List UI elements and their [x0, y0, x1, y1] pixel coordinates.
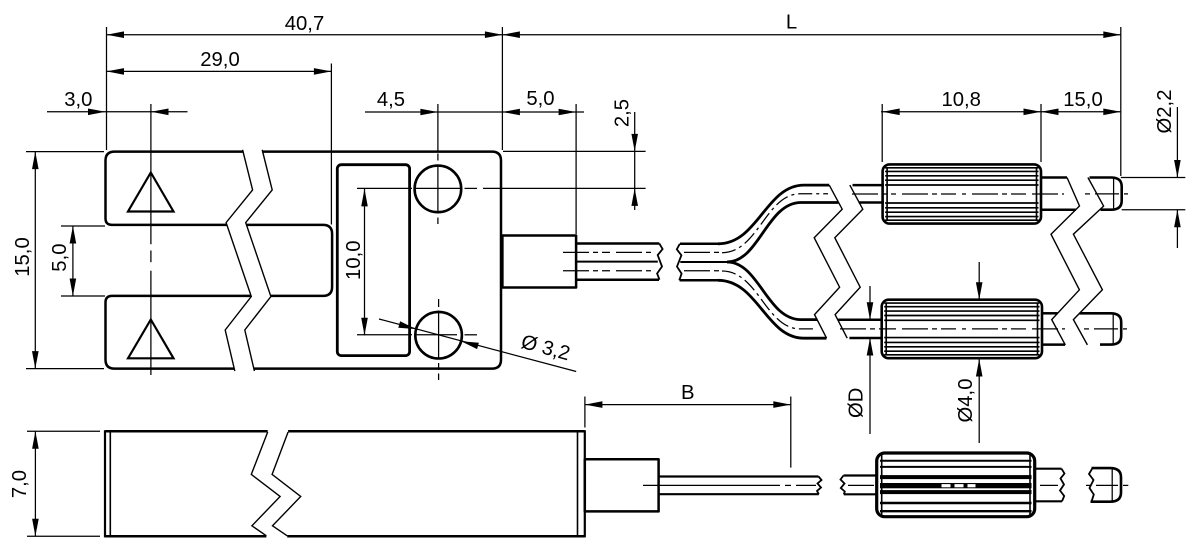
fiber end cap upper centerline [1085, 193, 1128, 195]
fiber centerline curves [722, 194, 828, 329]
twin cable core centerlines at split [684, 252, 720, 270]
fiber end cap upper [1090, 178, 1122, 210]
extension line ferrule left [881, 104, 883, 162]
extension line body top edge right [503, 150, 646, 152]
cable boot (top view) [502, 236, 576, 288]
fiber break band left line [814, 185, 842, 338]
dimension L [502, 11, 1120, 38]
leader line hole diameter [379, 319, 576, 372]
dimension 2,5 [611, 99, 638, 210]
svg-text:5,0: 5,0 [526, 88, 554, 110]
svg-text:Ø4,0: Ø4,0 [955, 379, 977, 423]
side view cable boot [585, 459, 659, 511]
dimension 15,0 left [12, 152, 104, 369]
side view cable centerline [643, 484, 816, 486]
fork sensor body (top view) left part [106, 152, 252, 369]
svg-text:10,0: 10,0 [343, 240, 365, 279]
fiber end cap lower centerline [1084, 328, 1127, 330]
svg-text:29,0: 29,0 [200, 49, 239, 71]
extension line boot right [575, 104, 577, 234]
hole centerline horizontal upper [357, 187, 646, 189]
knurled ferrule upper [883, 164, 1041, 223]
triangle centerline [150, 104, 152, 375]
svg-text:7,0: 7,0 [9, 470, 31, 498]
side view end cap [1086, 468, 1128, 502]
svg-text:5,0: 5,0 [49, 243, 71, 271]
svg-text:40,7: 40,7 [285, 13, 324, 35]
fiber Y-split [718, 185, 838, 338]
svg-text:4,5: 4,5 [377, 89, 405, 111]
extension line ferrule right [1040, 104, 1042, 162]
twin cable segment at split [677, 244, 727, 280]
beam mark triangle upper [128, 173, 174, 212]
dimension diameter 4,0 [955, 262, 983, 443]
beam mark triangle lower [128, 320, 174, 359]
dimension diameter D [846, 286, 874, 434]
dimension 7,0 [9, 431, 100, 536]
optical window [337, 165, 409, 356]
svg-text:2,5: 2,5 [611, 99, 633, 127]
extension line body right top [501, 27, 503, 150]
dimension diameter 2,2 [1121, 90, 1186, 248]
hole centerline horizontal lower [357, 334, 477, 336]
mounting hole upper [415, 166, 462, 213]
dimension 15,0 right [1041, 89, 1121, 115]
svg-text:10,8: 10,8 [941, 89, 980, 111]
fiber end cap lower [1080, 313, 1122, 344]
fiber break band right line [835, 185, 863, 338]
dimension 40,7 [107, 13, 503, 38]
side view cable [659, 477, 822, 495]
svg-text:15,0: 15,0 [1063, 89, 1102, 111]
svg-text:15,0: 15,0 [12, 237, 34, 276]
hole centerline vertical upper [437, 104, 439, 224]
extension line body left top [106, 27, 108, 150]
hole centerline vertical lower [438, 299, 440, 380]
dimension B [585, 382, 791, 468]
extension line cap right [1120, 27, 1122, 176]
end break band right line [1073, 178, 1103, 345]
dimension 29,0 [107, 49, 332, 225]
svg-text:ØD: ØD [846, 388, 868, 418]
body break line right [245, 150, 272, 371]
dimension 5,0 top [502, 88, 584, 115]
dimension 10,0 [343, 189, 368, 335]
dimension 4,5 [365, 89, 502, 115]
svg-text:B: B [681, 382, 695, 404]
dimension 10,8 [881, 89, 1041, 115]
svg-text:3,0: 3,0 [64, 89, 92, 111]
side body break line left [251, 432, 280, 536]
dimension 3,0 [47, 89, 188, 115]
side view cable stub [841, 476, 877, 495]
twin cable core centerlines [563, 252, 652, 270]
fiber centerline lower [840, 328, 1065, 330]
fiber stub to upper ferrule [853, 185, 885, 202]
svg-text:L: L [786, 11, 797, 33]
side view knurled ferrule [877, 453, 1035, 517]
end break band left line [1051, 178, 1080, 345]
side view fiber right of ferrule [1035, 469, 1065, 502]
body break line left [225, 150, 252, 371]
fiber stub to lower ferrule [838, 320, 883, 338]
mounting hole lower [415, 312, 462, 359]
fiber stub right of lower ferrule [1042, 313, 1065, 344]
fork sensor body (top view) right part [247, 152, 501, 369]
svg-text:Ø2,2: Ø2,2 [1154, 90, 1176, 134]
knurled ferrule lower [882, 300, 1042, 359]
side view body [105, 430, 585, 537]
twin cable segment [576, 244, 663, 280]
fiber stub right of upper ferrule [1041, 178, 1076, 210]
dimension 5,0 slot [49, 226, 105, 296]
side body break line right [272, 432, 301, 536]
fiber centerline upper [852, 193, 1064, 195]
